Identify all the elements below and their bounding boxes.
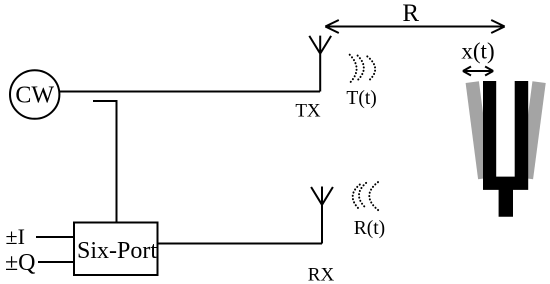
svg-text:TX: TX	[295, 101, 321, 122]
svg-text:Six-Port: Six-Port	[77, 238, 157, 264]
svg-text:±Q: ±Q	[5, 250, 36, 276]
svg-text:±I: ±I	[6, 224, 25, 249]
svg-text:CW: CW	[15, 83, 54, 109]
svg-text:R: R	[402, 0, 419, 27]
svg-text:T(t): T(t)	[346, 88, 376, 109]
svg-text:x(t): x(t)	[461, 39, 494, 64]
svg-text:R(t): R(t)	[354, 218, 385, 239]
svg-text:RX: RX	[308, 265, 335, 284]
